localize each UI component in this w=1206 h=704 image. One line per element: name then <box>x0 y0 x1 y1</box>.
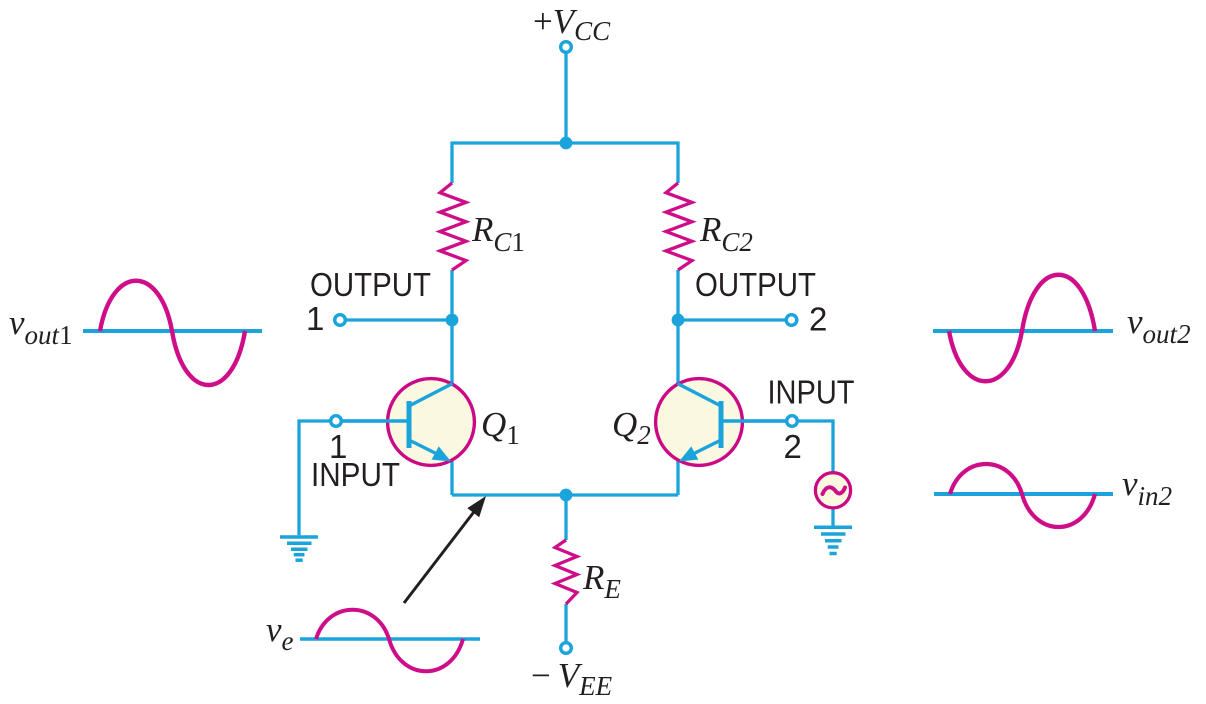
svg-text:OUTPUT: OUTPUT <box>310 266 431 303</box>
svg-text:2: 2 <box>809 301 827 338</box>
svg-text:INPUT: INPUT <box>768 374 855 411</box>
svg-text:2: 2 <box>784 428 802 465</box>
svg-text:INPUT: INPUT <box>311 456 400 493</box>
svg-text:1: 1 <box>306 300 324 337</box>
svg-text:OUTPUT: OUTPUT <box>695 266 816 303</box>
svg-text:1: 1 <box>329 428 347 465</box>
